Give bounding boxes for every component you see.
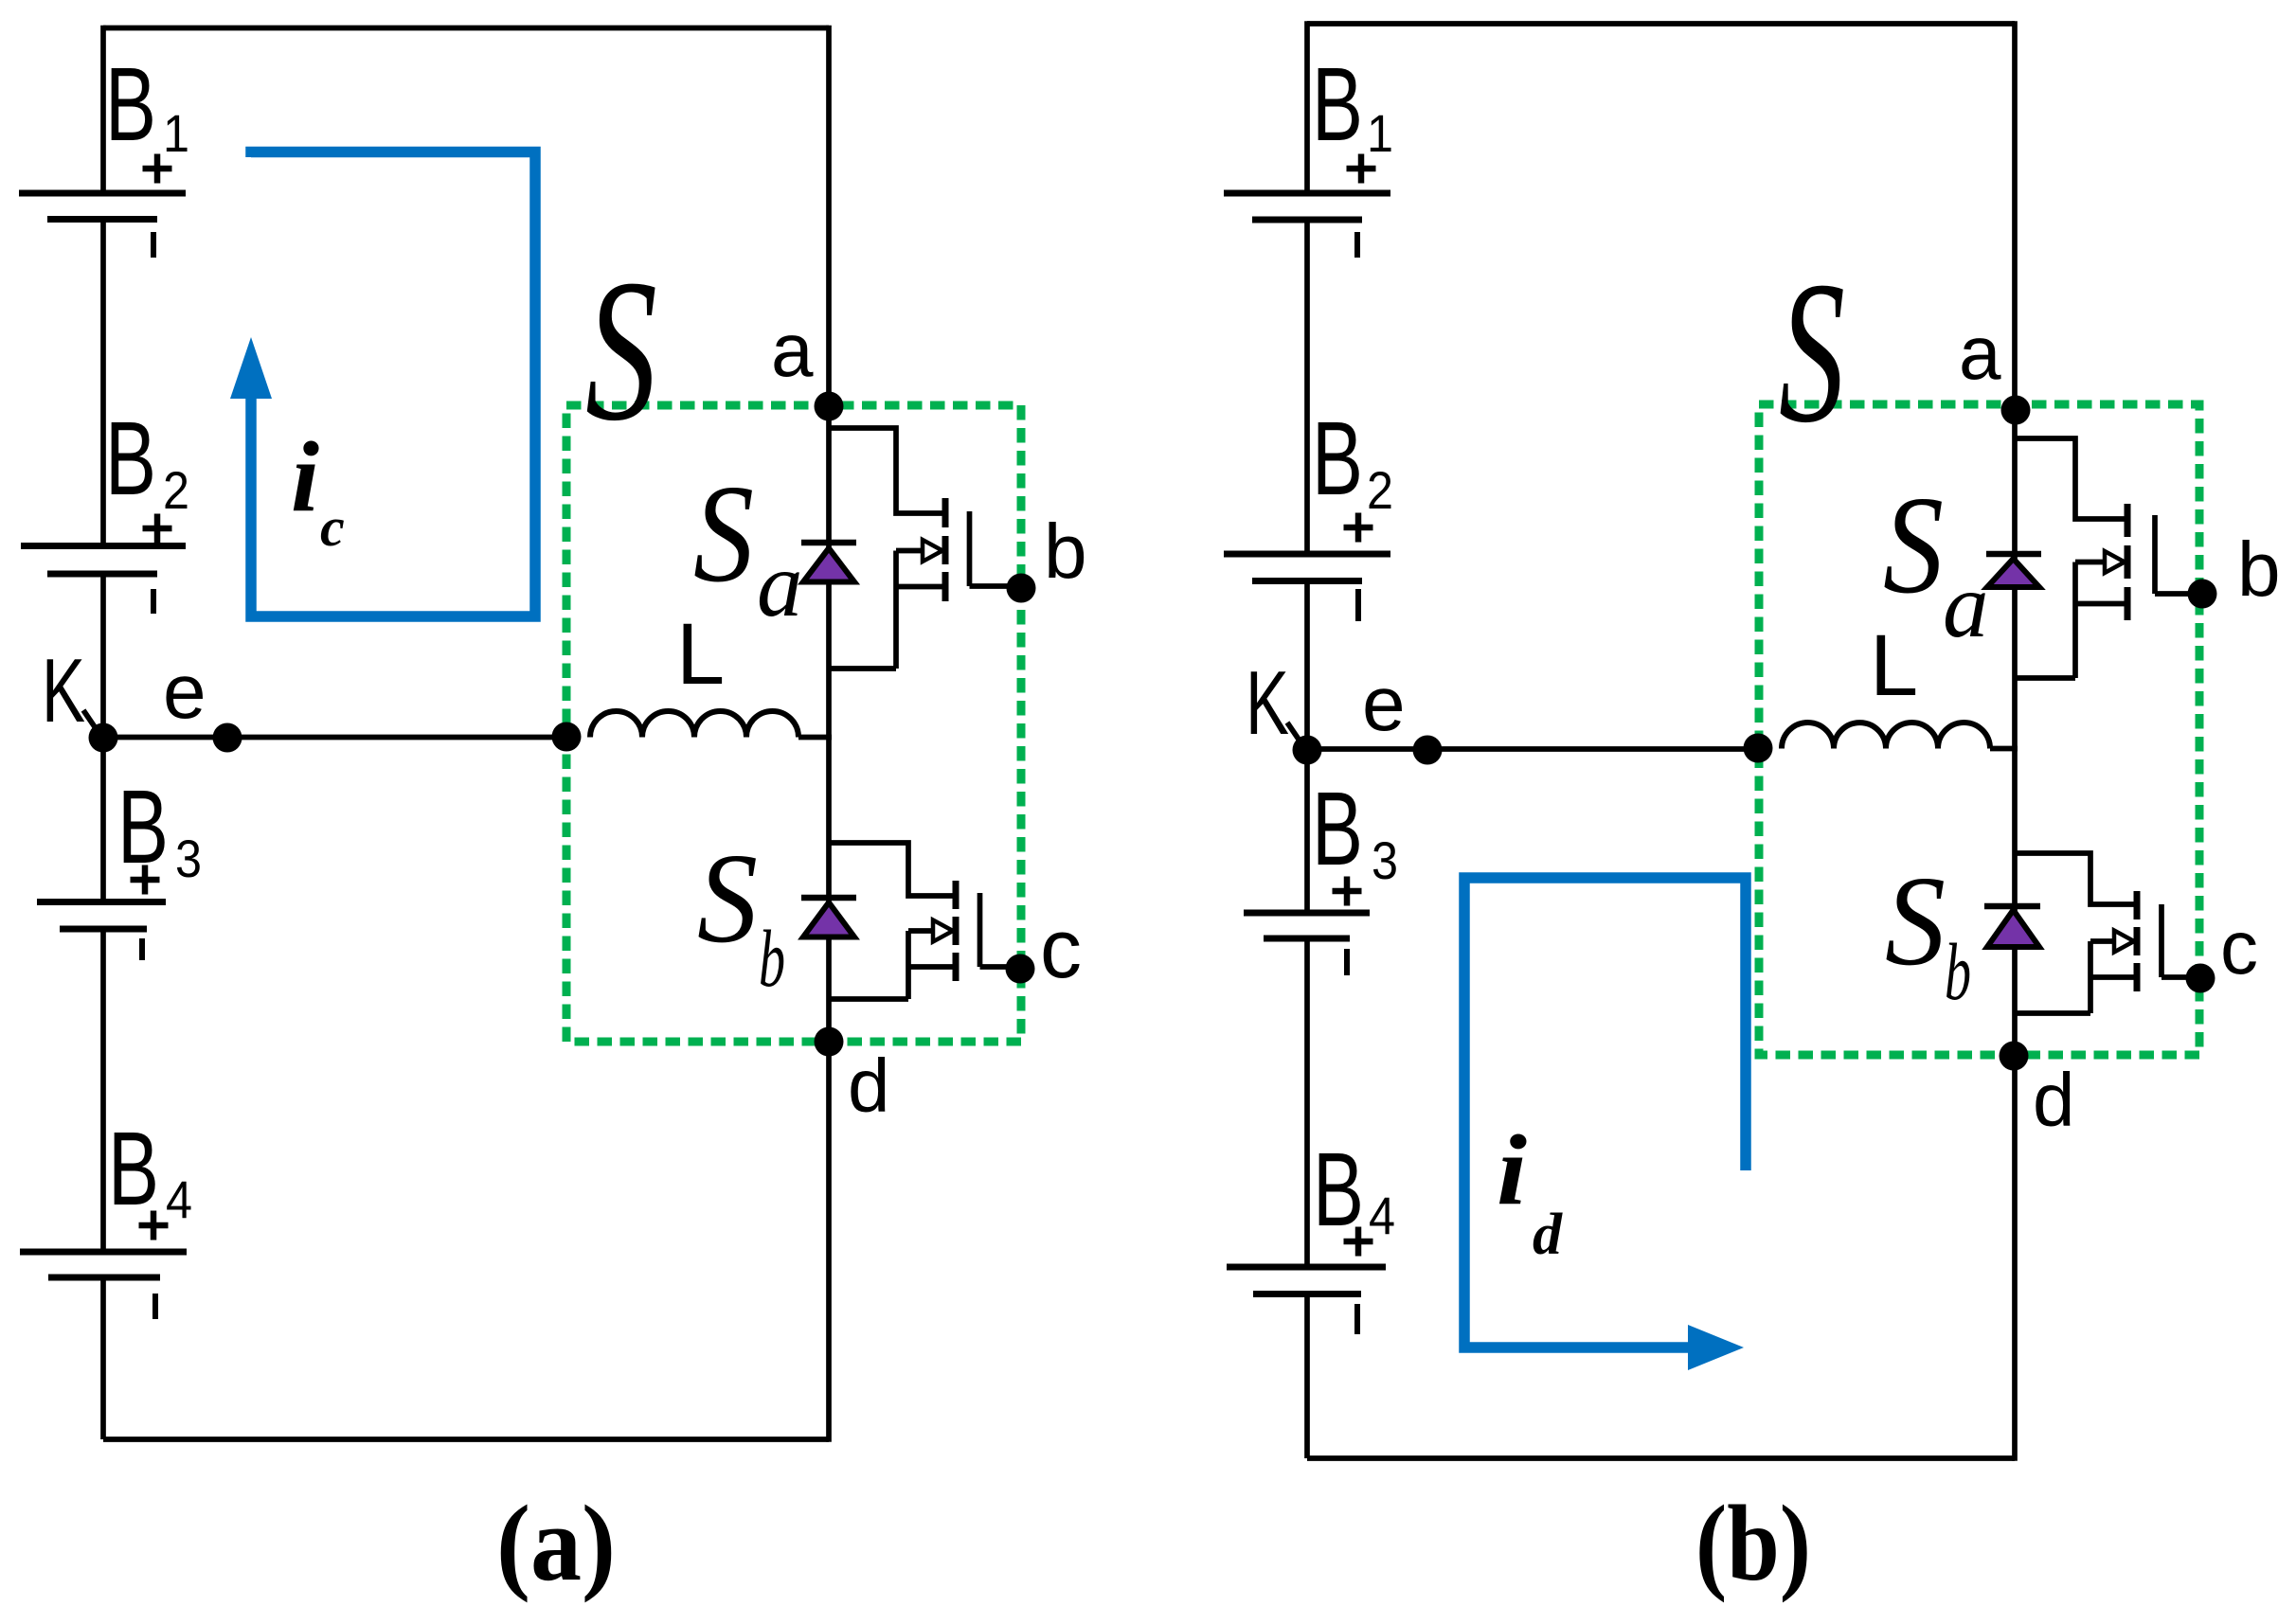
switch Sb (b) body diode triangle xyxy=(1987,910,2039,947)
svg-text:1: 1 xyxy=(1367,103,1393,163)
battery B2(a) minus mark xyxy=(151,589,156,614)
switch Sa (b) gate bar xyxy=(2152,515,2158,594)
switch Sa (a) source wire xyxy=(896,584,945,590)
svg-text:1: 1 xyxy=(163,103,189,163)
node d (a) junction dot xyxy=(815,1027,844,1057)
svg-text:2: 2 xyxy=(163,460,189,520)
svg-text:S: S xyxy=(697,828,758,970)
battery B3(a) long plate (+) xyxy=(37,899,166,905)
svg-text:i: i xyxy=(291,421,319,532)
node e (a) junction dot xyxy=(213,723,242,753)
battery B3(a) minus mark xyxy=(139,938,145,960)
wire: panel (a) top conductor xyxy=(103,26,829,31)
svg-text:4: 4 xyxy=(1369,1186,1395,1245)
battery B1(a) minus mark xyxy=(151,232,156,258)
svg-text:a: a xyxy=(1959,311,2001,395)
svg-text:S: S xyxy=(585,237,657,463)
node c (b) junction dot xyxy=(2186,964,2215,993)
current loop i_c arrowhead (up) xyxy=(230,337,272,399)
wire: panel (a) left conductor segments (battery string) xyxy=(100,26,106,193)
node L input junction (b) junction dot xyxy=(1744,734,1773,763)
node c (a) junction dot xyxy=(1006,955,1035,984)
wire: panel (b) right main conductor xyxy=(2012,21,2018,1461)
switch Sb (a) source wire xyxy=(908,964,956,970)
svg-text:S: S xyxy=(1885,850,1946,992)
current loop i_d arrowhead (right) xyxy=(1688,1325,1744,1370)
switch Sb (b) body arrow xyxy=(2090,938,2115,944)
switch Sb (a) body arrow xyxy=(908,928,934,934)
switch Sb (a) channel bars xyxy=(953,881,960,981)
battery B4(a) long plate (+) xyxy=(20,1249,187,1256)
node a (b) junction dot xyxy=(2001,396,2031,425)
svg-text:(b): (b) xyxy=(1695,1483,1811,1603)
svg-text:B: B xyxy=(105,46,156,163)
battery B3(b) short plate (-) xyxy=(1264,936,1350,942)
node K (a) junction dot xyxy=(89,723,118,753)
svg-text:B: B xyxy=(105,401,156,517)
svg-text:a: a xyxy=(757,534,803,635)
node L input junction (a) junction dot xyxy=(552,723,582,752)
svg-text:S: S xyxy=(1779,239,1845,465)
switch Sa (b) body diode triangle xyxy=(1987,559,2039,587)
battery B3(a) plus mark xyxy=(131,877,160,883)
svg-text:3: 3 xyxy=(175,829,202,888)
switch Sb (b) gate wire xyxy=(2161,974,2200,980)
battery B4(a) short plate (-) xyxy=(48,1275,160,1281)
battery B4(a) plus mark xyxy=(139,1222,169,1229)
switch Sb (b) gate bar xyxy=(2159,904,2164,977)
switch Sa (b) drain wire xyxy=(2015,438,2127,519)
battery B4(b) plus mark xyxy=(1344,1239,1373,1245)
battery B3(b) plus mark xyxy=(1333,888,1362,895)
node e (b) junction dot xyxy=(1413,736,1443,765)
switch Sb (a) gate bar xyxy=(978,893,983,967)
wire: panel (a) bottom conductor xyxy=(103,1437,829,1442)
label K leader line xyxy=(83,710,101,737)
wire: node K to inductor (horizontal) xyxy=(103,735,568,741)
svg-text:S: S xyxy=(1883,468,1944,623)
battery B1(a) long plate (+) xyxy=(19,190,186,197)
battery B2(b) minus mark xyxy=(1355,589,1361,621)
svg-text:L: L xyxy=(1870,617,1918,714)
svg-text:c: c xyxy=(1040,901,1082,995)
svg-text:2: 2 xyxy=(1367,460,1393,520)
wire: node K to inductor (horizontal, panel b) xyxy=(1307,746,1759,752)
svg-text:a: a xyxy=(1943,555,1989,656)
current loop i_d (blue, panel b) xyxy=(1464,878,1746,1347)
battery B3(b) long plate (+) xyxy=(1244,910,1370,917)
switch Sa (b) body arrow xyxy=(2075,560,2106,565)
switch Sb (a) body diode cathode bar xyxy=(801,895,856,901)
svg-text:3: 3 xyxy=(1372,830,1398,890)
svg-text:b: b xyxy=(1945,926,1971,1017)
svg-text:e: e xyxy=(1362,661,1406,747)
svg-text:b: b xyxy=(2237,526,2281,613)
switch module S boundary (green dashed box, panel a) xyxy=(566,405,1021,1042)
svg-text:4: 4 xyxy=(166,1169,192,1229)
svg-text:d: d xyxy=(848,1044,890,1128)
switch Sb (a) gate wire xyxy=(980,964,1022,970)
battery B4(b) long plate (+) xyxy=(1227,1264,1386,1271)
battery B2(a) plus mark xyxy=(143,526,172,532)
switch Sa (b) channel bars xyxy=(2125,504,2131,620)
battery B1(a) plus mark xyxy=(143,166,172,172)
svg-text:K: K xyxy=(42,640,85,741)
switch Sa (b) source wire xyxy=(2075,601,2127,607)
svg-text:c: c xyxy=(320,496,345,558)
switch Sb (b) body diode cathode bar xyxy=(1984,903,2040,910)
battery B3(a) short plate (-) xyxy=(60,926,147,933)
battery B4(b) minus mark xyxy=(1354,1304,1360,1334)
inductor L lead wire xyxy=(1990,746,2018,752)
node d (b) junction dot xyxy=(2000,1042,2029,1071)
wire: panel (b) bottom conductor xyxy=(1307,1455,2015,1461)
node a (a) junction dot xyxy=(815,392,844,421)
svg-text:L: L xyxy=(676,606,725,703)
svg-text:d: d xyxy=(1533,1203,1563,1267)
switch Sa (a) body arrow xyxy=(896,548,924,554)
battery B3(b) minus mark xyxy=(1344,949,1350,975)
inductor L winding xyxy=(590,711,798,738)
switch Sb (b) source wire xyxy=(2090,974,2137,980)
svg-text:e: e xyxy=(163,649,206,735)
battery B2(a) short plate (-) xyxy=(47,571,157,578)
svg-text:(a): (a) xyxy=(496,1483,616,1603)
node b (a) junction dot xyxy=(1007,574,1036,603)
switch Sa (b) gate wire xyxy=(2155,591,2202,597)
switch module S boundary (green dashed box, panel b) xyxy=(1759,404,2199,1055)
inductor L winding xyxy=(1782,723,1990,749)
node K (b) junction dot xyxy=(1293,736,1322,765)
switch Sa (a) body diode triangle xyxy=(803,548,854,582)
label K leader line (b) xyxy=(1287,723,1305,749)
node b (b) junction dot xyxy=(2188,580,2217,609)
svg-text:K: K xyxy=(1246,652,1289,754)
svg-text:S: S xyxy=(693,456,754,612)
switch Sb (a) drain wire xyxy=(829,843,956,896)
battery B1(b) long plate (+) xyxy=(1224,190,1390,197)
svg-text:B: B xyxy=(1312,401,1363,517)
svg-text:i: i xyxy=(1497,1115,1527,1225)
battery B2(b) plus mark xyxy=(1344,525,1373,531)
svg-text:a: a xyxy=(771,308,814,392)
switch Sa (a) gate wire xyxy=(970,583,1022,589)
battery B4(b) short plate (-) xyxy=(1253,1291,1361,1297)
svg-text:b: b xyxy=(759,913,785,1004)
battery B1(b) plus mark xyxy=(1347,166,1376,172)
battery B2(b) short plate (-) xyxy=(1252,578,1362,584)
svg-text:B: B xyxy=(1312,771,1363,887)
battery B4(a) minus mark xyxy=(152,1294,158,1319)
svg-text:B: B xyxy=(108,1111,159,1227)
battery B2(b) long plate (+) xyxy=(1224,551,1390,558)
wire: panel (b) top conductor xyxy=(1307,21,2015,27)
switch Sa (a) gate bar xyxy=(967,511,973,586)
battery B2(a) long plate (+) xyxy=(21,543,186,549)
svg-text:b: b xyxy=(1044,509,1087,595)
wire: panel (b) left conductor segments (battery string) xyxy=(1304,21,1310,193)
switch Sa (b) body diode cathode bar xyxy=(1986,551,2041,558)
wire: panel (a) right main conductor xyxy=(826,26,832,1442)
current loop i_c (blue, panel a) xyxy=(251,152,535,617)
inductor L lead wire xyxy=(798,735,832,741)
svg-text:c: c xyxy=(2220,905,2258,990)
svg-text:d: d xyxy=(2033,1058,2075,1142)
battery B1(b) minus mark xyxy=(1354,232,1360,258)
switch Sb (b) channel bars xyxy=(2134,891,2141,991)
switch Sa (a) channel bars xyxy=(942,498,949,601)
svg-text:B: B xyxy=(1312,46,1363,163)
switch Sa (a) body diode cathode bar xyxy=(801,540,856,546)
switch Sb (a) body diode triangle xyxy=(803,902,854,937)
battery B1(a) short plate (-) xyxy=(47,216,157,223)
battery B1(b) short plate (-) xyxy=(1252,217,1362,223)
switch Sa (a) drain wire xyxy=(829,428,945,513)
switch Sb (b) drain wire xyxy=(2015,853,2137,904)
